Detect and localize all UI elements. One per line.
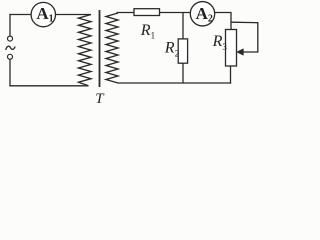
transformer core [99,10,101,87]
transformer secondary winding [106,13,118,83]
transformer primary winding [79,15,92,86]
wire: secondary top (through R1 to A2) [117,12,232,14]
resistor R2 [178,39,187,63]
wire: left rail bottom stub [9,59,11,86]
rheostat R3 slider arrow [237,49,244,56]
wire: branch to slider (top right) [231,22,258,52]
resistor R1 [134,9,160,16]
wire: junction to R2 top [182,13,184,40]
svg-text:R1: R1 [140,22,155,41]
AC source ~ symbol [6,46,15,50]
wire: R3 bottom lead [230,66,232,84]
rheostat R3 body [226,30,237,67]
AC source terminal (bottom circle) [8,54,13,59]
wire: R2 bottom lead [182,63,184,84]
wire: A2 to R3 top [230,13,232,31]
wire: primary bottom [9,85,88,87]
wire: secondary bottom [118,82,232,84]
wire: left rail top stub [9,14,11,36]
wire: primary top (source to transformer) [9,14,91,16]
svg-text:T: T [95,91,105,107]
ammeter A1 [31,2,55,26]
AC source terminal (top circle) [8,36,13,41]
svg-text:R2: R2 [164,39,179,58]
ammeter A2 [190,2,214,26]
